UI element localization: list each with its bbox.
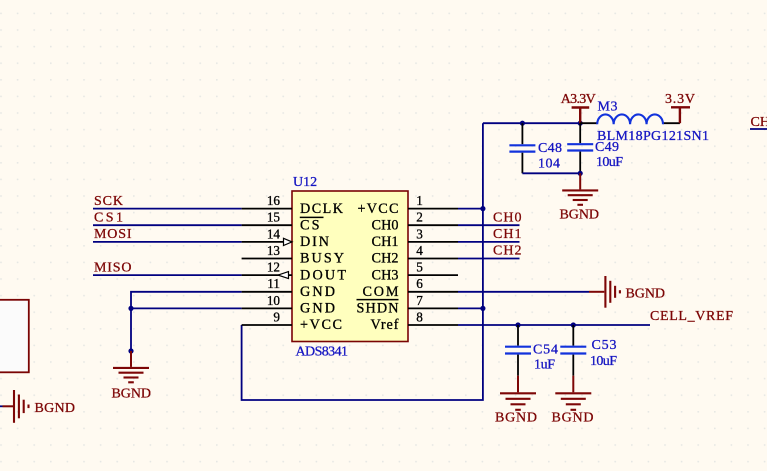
svg-text:BGND: BGND (495, 410, 537, 425)
ground BGND under C49 (560, 173, 600, 222)
wire C48/C49 bottoms (522, 172, 580, 174)
svg-text:5: 5 (416, 260, 423, 275)
svg-text:4: 4 (416, 243, 423, 258)
capacitor C54 1uF (505, 325, 558, 376)
svg-text:+VCC: +VCC (358, 201, 399, 217)
svg-text:10uF: 10uF (596, 155, 623, 170)
wire stub left edge (0, 405, 3, 407)
svg-text:10uF: 10uF (590, 354, 617, 369)
pin 14 DIN with input arrow (242, 226, 329, 250)
svg-text:BGND: BGND (626, 287, 666, 302)
wire pin9 +VCC loop to bus bottom (242, 123, 483, 400)
svg-text:3.3V: 3.3V (665, 92, 695, 107)
svg-text:M3: M3 (598, 99, 618, 114)
IC U12 ADS8341 body (292, 175, 408, 360)
pin 5 CH3 (372, 260, 459, 284)
svg-text:CH2: CH2 (493, 244, 522, 259)
junction C53/Vref wire (571, 322, 576, 327)
svg-text:C54: C54 (533, 342, 558, 357)
wire pin8 Vref CELL_VREF net (458, 324, 650, 326)
svg-text:MOSI: MOSI (94, 227, 132, 242)
power port 3.3V (665, 92, 695, 123)
pin 3 CH1 (372, 226, 459, 250)
svg-text:C53: C53 (592, 338, 617, 353)
capacitor C49 10uF (567, 123, 623, 173)
svg-text:BGND: BGND (112, 387, 152, 402)
pin 8 Vref (371, 309, 459, 333)
junction A3.3V/C49/M3 (578, 121, 583, 126)
svg-text:11: 11 (267, 276, 280, 291)
svg-text:13: 13 (267, 243, 281, 258)
svg-text:CH1: CH1 (493, 227, 522, 242)
svg-text:SHDN: SHDN (357, 301, 399, 317)
junction pin1/bus (480, 206, 485, 211)
wire MISO net (93, 274, 242, 276)
wire pin10 GND down to ground (131, 308, 242, 351)
svg-text:GND: GND (300, 301, 335, 317)
svg-text:12: 12 (267, 260, 280, 275)
svg-text:BGND: BGND (552, 410, 594, 425)
wire top A3.3V rail (483, 122, 580, 124)
wire MOSI net (93, 241, 242, 243)
ground BGND sideways at COM (589, 276, 665, 308)
inductor (ferrite bead) M3 (580, 99, 709, 144)
wire CS1 net (93, 224, 242, 226)
junction pin7/bus (480, 306, 485, 311)
pin 12 DOUT with output arrow (242, 260, 347, 284)
svg-text:104: 104 (538, 156, 560, 171)
svg-text:CH2: CH2 (372, 251, 399, 267)
pin 6 COM (363, 276, 459, 300)
svg-text:DCLK: DCLK (300, 201, 344, 217)
junction ground stem (128, 348, 133, 353)
ground BGND under C54 (495, 376, 537, 426)
svg-text:CS1: CS1 (94, 210, 123, 225)
svg-text:C49: C49 (595, 140, 619, 155)
ground BGND under C53 (552, 376, 594, 426)
connector partial at left edge (0, 300, 29, 373)
svg-text:15: 15 (267, 210, 281, 225)
svg-text:ADS8341: ADS8341 (296, 345, 349, 360)
wire SCK net (93, 208, 242, 210)
pin 13 BUSY (242, 243, 344, 267)
pin 2 CH0 (372, 210, 459, 234)
svg-text:CH3: CH3 (751, 115, 767, 130)
wire pin6 COM to BGND (458, 291, 589, 293)
pin 16 DCLK (242, 193, 344, 217)
wire CH net at right edge (750, 128, 767, 130)
junction C54/Vref wire (515, 322, 520, 327)
pin 7 SHDN (active low) (357, 293, 459, 317)
wire CH0 net (458, 224, 520, 226)
svg-text:8: 8 (416, 309, 423, 324)
power port A3.3V (561, 92, 596, 123)
wire pin7 SHDN to bus (458, 307, 483, 309)
svg-text:6: 6 (416, 276, 423, 291)
wire CH2 net (458, 258, 520, 260)
wire CH1 net (458, 241, 520, 243)
capacitor C48 104 (509, 123, 562, 173)
svg-text:A3.3V: A3.3V (561, 92, 596, 107)
pin 10 GND (242, 293, 335, 317)
svg-text:CH1: CH1 (372, 234, 399, 250)
svg-text:SCK: SCK (94, 194, 123, 209)
junction pin10/pin11 (128, 306, 133, 311)
svg-text:GND: GND (300, 284, 335, 300)
svg-text:DIN: DIN (300, 234, 329, 250)
junction C49 bottom (578, 171, 583, 176)
svg-text:10: 10 (267, 293, 281, 308)
svg-text:C48: C48 (538, 141, 562, 156)
svg-text:BGND: BGND (560, 208, 600, 223)
svg-text:CELL_VREF: CELL_VREF (650, 309, 733, 324)
svg-text:MISO: MISO (94, 260, 132, 275)
svg-text:Vref: Vref (371, 317, 399, 333)
svg-text:1uF: 1uF (534, 358, 555, 373)
svg-text:7: 7 (416, 293, 423, 308)
ground BGND under IC (112, 351, 152, 402)
svg-text:CH0: CH0 (372, 217, 399, 233)
ground BGND sideways left edge (3, 390, 76, 423)
capacitor C53 10uF (560, 325, 617, 376)
pin 15 CS (active low) (242, 210, 324, 234)
wire pin11 GND to junction (131, 292, 242, 309)
wire pin1 to bus (458, 208, 483, 210)
svg-text:COM: COM (363, 284, 399, 300)
pin 1 +VCC (358, 193, 459, 217)
svg-text:2: 2 (416, 210, 423, 225)
svg-text:U12: U12 (293, 175, 317, 190)
svg-text:1: 1 (416, 193, 423, 208)
svg-text:BGND: BGND (35, 401, 76, 416)
svg-text:CH0: CH0 (493, 210, 522, 225)
svg-text:14: 14 (267, 226, 281, 241)
pin 4 CH2 (372, 243, 459, 267)
svg-text:9: 9 (273, 309, 280, 324)
pin 11 GND (242, 276, 335, 300)
svg-text:3: 3 (416, 226, 423, 241)
junction C48/rail (520, 121, 525, 126)
pin 9 +VCC (242, 309, 342, 333)
svg-text:+VCC: +VCC (300, 317, 342, 333)
svg-text:16: 16 (267, 193, 281, 208)
svg-text:CH3: CH3 (372, 267, 399, 283)
